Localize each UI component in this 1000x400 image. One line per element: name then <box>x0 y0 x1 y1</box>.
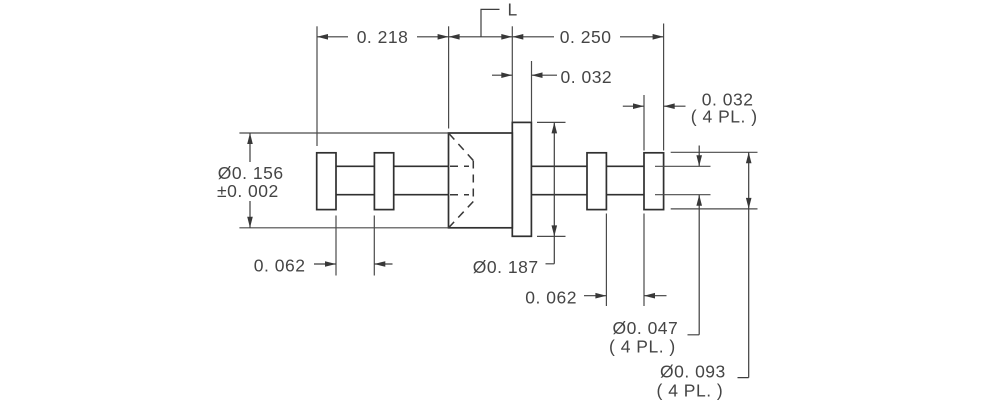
arrow 0.250 right <box>653 34 664 40</box>
arrow 0.032 flange right <box>664 103 675 109</box>
arrow 0.032 flange left <box>633 103 644 109</box>
dimension line dia 0.093 with leader <box>738 152 749 377</box>
svg-text:0. 062: 0. 062 <box>254 255 306 275</box>
hidden hole lower line <box>450 194 469 196</box>
extension line collar left face <box>511 26 513 121</box>
flange F1 (left end washer) <box>317 153 336 210</box>
dimension line 0.062 left <box>314 263 393 265</box>
arrow dia 0.156 up <box>247 133 253 144</box>
arrow 0.062 left dim left-pointing <box>374 261 385 267</box>
extension line F1 right face lower <box>335 216 337 276</box>
flange F3 <box>587 153 606 210</box>
arrow dia 0.047 up <box>696 195 702 206</box>
svg-text:Ø0. 047: Ø0. 047 <box>613 318 679 338</box>
arrow dia 0.187 down <box>552 225 558 236</box>
dimension line dia 0.187 with leader <box>546 122 555 263</box>
arrow 0.218 right <box>438 34 449 40</box>
extension line body left face <box>448 26 450 128</box>
svg-text:Ø0. 156: Ø0. 156 <box>218 163 284 183</box>
hidden hole upper line <box>450 165 469 167</box>
shaft segment between F3 and F4 <box>606 166 644 194</box>
extension line right end of part <box>663 24 665 151</box>
arrow dia 0.093 up <box>746 152 752 163</box>
flange F2 <box>374 153 393 210</box>
extension line F3 right face lower <box>605 214 607 307</box>
arrow 0.032 collar left <box>501 72 512 78</box>
large flange (0.187 collar) <box>512 122 531 236</box>
svg-text:0. 062: 0. 062 <box>525 288 577 308</box>
extension line F4 left face lower <box>643 214 645 307</box>
arrow dia 0.093 down <box>746 198 752 209</box>
arrow dia 0.187 up <box>552 122 558 133</box>
arrow 0.250 left <box>512 34 523 40</box>
dimension line dia 0.156 <box>249 133 251 228</box>
shaft segment between F1 and F2 <box>336 166 374 194</box>
extension line shaft bottom right <box>655 194 711 196</box>
extension line bottom of 0.156 <box>239 227 448 229</box>
extension line flange top right <box>671 151 758 153</box>
dimension line dia 0.047 with leader <box>688 146 700 335</box>
arrow 0.032 collar right <box>532 72 543 78</box>
extension line F2 left face lower <box>373 216 375 276</box>
extension line shaft top right <box>655 165 711 167</box>
body (center barrel) <box>449 133 513 228</box>
arrow 0.062 right dim left-pointing <box>644 293 655 299</box>
dimension line 0.032 flange <box>623 105 686 107</box>
svg-text:( 4 PL. ): ( 4 PL. ) <box>691 107 758 127</box>
arrow dia 0.047 down <box>696 155 702 166</box>
hidden hole bottom vertical <box>472 161 474 202</box>
dimension line 0.218 <box>317 36 449 38</box>
svg-text:L: L <box>508 0 518 20</box>
dimension line 0.062 right <box>584 295 667 297</box>
extension line collar bottom <box>537 235 566 237</box>
shaft segment between F2 and body <box>394 166 449 194</box>
svg-text:0. 032: 0. 032 <box>561 67 613 87</box>
extension line flange bottom right <box>671 208 758 210</box>
dimension line 0.250 <box>512 36 663 38</box>
flange F4 (right end washer) <box>644 153 664 210</box>
arrow dia 0.156 down <box>247 217 253 228</box>
shaft segment between collar and F3 <box>531 166 587 194</box>
dimension line L <box>449 36 513 38</box>
svg-text:( 4 PL. ): ( 4 PL. ) <box>609 337 676 357</box>
arrow 0.218 left <box>317 34 328 40</box>
extension line F4 left face upper <box>643 95 645 151</box>
hidden chamfer upper diagonal <box>449 134 473 161</box>
svg-text:Ø0. 093: Ø0. 093 <box>660 362 726 382</box>
arrow 0.062 left dim right-pointing <box>325 261 336 267</box>
hidden chamfer lower diagonal <box>449 202 473 228</box>
extension line top of 0.156 <box>239 132 448 134</box>
dimension line 0.032 collar <box>492 74 557 76</box>
arrow 0.062 right dim right-pointing <box>595 293 606 299</box>
svg-text:Ø0. 187: Ø0. 187 <box>473 257 539 277</box>
extension line left end of part <box>316 26 318 146</box>
leader for L label <box>481 9 500 36</box>
arrow L right <box>501 34 512 40</box>
svg-text:0. 218: 0. 218 <box>357 27 409 47</box>
svg-text:( 4 PL. ): ( 4 PL. ) <box>657 380 724 400</box>
svg-text:±0. 002: ±0. 002 <box>217 181 279 201</box>
arrow L left <box>449 34 460 40</box>
svg-text:0. 250: 0. 250 <box>560 27 612 47</box>
extension line collar top <box>537 121 566 123</box>
extension line collar right face <box>531 61 533 122</box>
